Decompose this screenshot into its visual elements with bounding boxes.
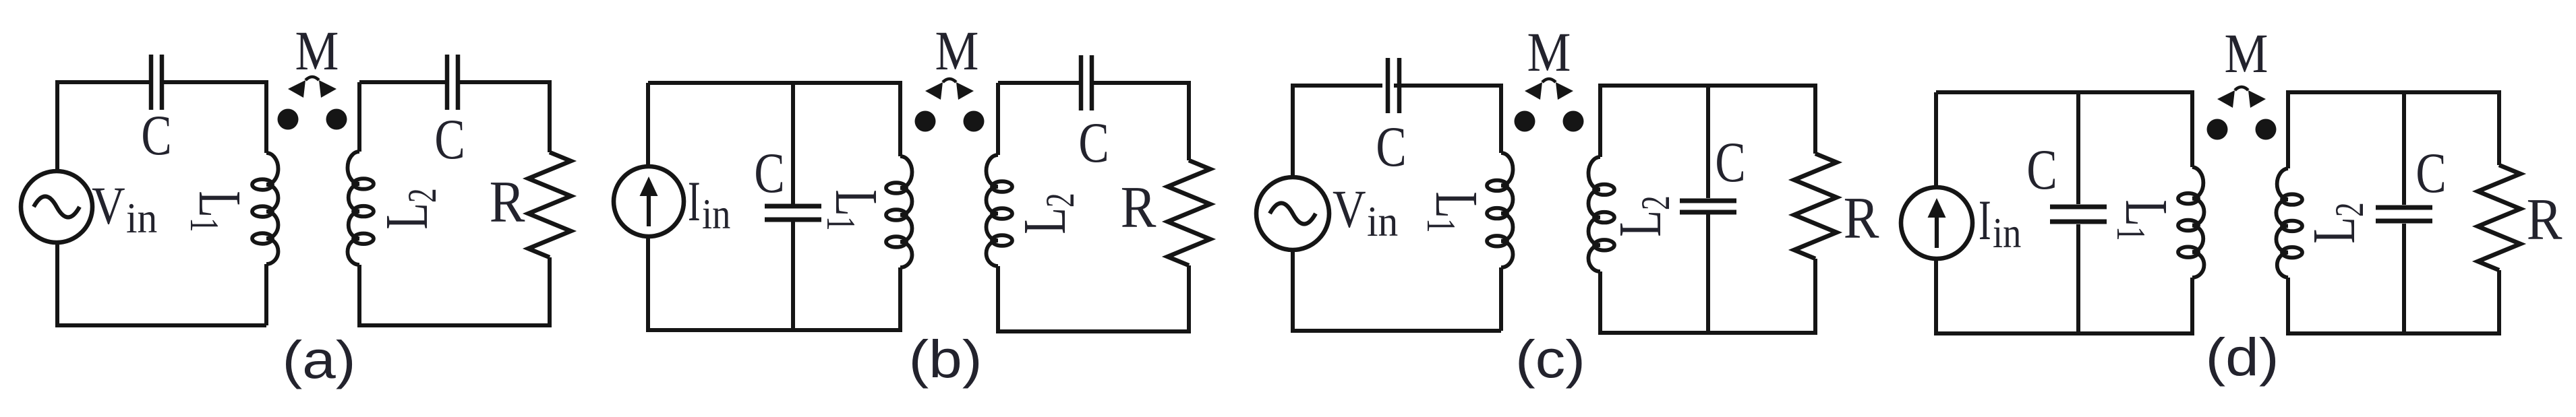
label L1 (d)	[2108, 199, 2180, 240]
svg-text:R: R	[1121, 174, 1157, 240]
label C (c) right	[1715, 130, 1745, 194]
current source Iin (b)	[614, 166, 684, 236]
svg-text:in: in	[1993, 209, 2021, 257]
wire (a) secondary top-left	[359, 80, 447, 84]
label C (c) left	[1376, 115, 1406, 179]
svg-text:in: in	[1367, 198, 1398, 245]
label C (d) right	[2416, 141, 2446, 205]
label Vin (c)	[1333, 181, 1398, 246]
wire (b) C branch top	[791, 83, 795, 204]
label Iin (b)	[688, 169, 730, 238]
(b) coupling arrowhead left	[925, 82, 943, 100]
(b) coupling arrowhead right	[956, 82, 974, 100]
caption (a)	[282, 330, 355, 389]
svg-text:L2: L2	[1606, 195, 1678, 236]
label C (a) left	[141, 103, 171, 167]
caption (c)	[1515, 329, 1585, 389]
svg-text:L1: L1	[2108, 199, 2180, 240]
svg-text:R: R	[2527, 187, 2563, 253]
wire (c) C to L1 top	[1394, 86, 1501, 153]
svg-text:C: C	[1376, 115, 1406, 179]
wire (d) C branch bottom	[2076, 224, 2080, 333]
capacitor C series (a) left	[151, 55, 162, 110]
wire (b) C branch bottom	[791, 222, 795, 330]
(c) coupling arrowhead left	[1525, 82, 1542, 100]
svg-text:L1: L1	[818, 189, 890, 230]
svg-text:L1: L1	[1418, 191, 1490, 232]
label C (d) left	[2026, 137, 2057, 201]
svg-text:V: V	[1333, 181, 1366, 239]
voltage source Vin (c)	[1256, 177, 1329, 250]
wire (b) secondary bottom	[998, 265, 1189, 331]
resistor R (c)	[1794, 154, 1837, 259]
capacitor C parallel (d)	[2050, 207, 2107, 222]
(c) polarity dot left	[1515, 111, 1535, 132]
wire (c) secondary bottom	[1600, 259, 1815, 333]
(c) label M	[1527, 21, 1571, 83]
svg-text:L2: L2	[1011, 193, 1083, 234]
wire (a) L2 bottom to R bottom	[359, 257, 550, 325]
(a) label M	[295, 20, 339, 82]
label L1 (b)	[818, 189, 890, 230]
label L1 (a)	[181, 191, 254, 232]
svg-text:(a): (a)	[282, 330, 355, 389]
wire (b) L2 top lead	[996, 83, 1000, 155]
inductor L1 (a)	[252, 153, 279, 264]
svg-text:C: C	[1715, 130, 1745, 194]
svg-text:I: I	[1979, 188, 1991, 251]
label C (b) right	[1078, 110, 1109, 174]
wire (d) secondary top	[2288, 92, 2499, 168]
(a) coupling arrowhead left	[288, 80, 305, 98]
label C (b)	[754, 141, 784, 205]
label L2 (c)	[1606, 195, 1678, 236]
wire (a) C to L1 top	[164, 82, 266, 153]
resistor R (a)	[529, 152, 571, 257]
label L1 (c)	[1418, 191, 1490, 232]
wire (d) secondary bottom	[2288, 270, 2499, 333]
(b) polarity dot left	[915, 111, 936, 132]
svg-text:I: I	[688, 169, 701, 232]
label R (a)	[490, 169, 525, 235]
label R (d)	[2527, 187, 2563, 253]
wire (d) top run	[1936, 92, 2192, 187]
inductor L1 (b)	[886, 156, 912, 267]
caption (b)	[908, 329, 982, 389]
svg-text:M: M	[2225, 22, 2268, 84]
svg-text:R: R	[490, 169, 525, 235]
wire (a) L1 bottom lead	[264, 264, 268, 325]
(a) polarity dot right	[326, 109, 347, 130]
(c) coupling arrowhead right	[1556, 82, 1573, 100]
svg-text:L1: L1	[181, 191, 254, 232]
wire (c) Vin- to bottom	[1293, 250, 1501, 331]
svg-text:(d): (d)	[2205, 327, 2279, 387]
wire (a) L2 top lead	[357, 82, 361, 152]
wire (b) secondary top-left	[998, 81, 1081, 85]
(b) coupling arc	[943, 79, 956, 82]
(a) coupling arc	[305, 77, 319, 80]
wire (a) secondary top-right	[458, 82, 550, 152]
label Iin (d)	[1979, 188, 2021, 257]
capacitor C series (c)	[1388, 58, 1399, 113]
capacitor C series (a) right	[447, 55, 458, 110]
(a) polarity dot left	[278, 109, 299, 130]
label Vin (a)	[92, 177, 157, 243]
resistor R (d)	[2478, 165, 2521, 270]
capacitor C series (b)	[1081, 55, 1092, 110]
caption (d)	[2205, 327, 2279, 387]
svg-text:(c): (c)	[1515, 329, 1585, 389]
(d) coupling arrowhead left	[2217, 90, 2235, 108]
label R (c)	[1844, 185, 1879, 251]
capacitor C parallel (b)	[765, 206, 821, 220]
svg-text:C: C	[434, 107, 465, 171]
wire (c) top-left run	[1293, 86, 1382, 177]
(c) coupling arc	[1542, 79, 1556, 82]
wire (d) C branch top	[2076, 92, 2080, 204]
svg-text:in: in	[702, 190, 730, 238]
inductor L2 (a)	[347, 152, 374, 265]
svg-text:C: C	[141, 103, 171, 167]
svg-text:M: M	[295, 20, 339, 82]
svg-text:C: C	[754, 141, 784, 205]
wire (a) top-left run Vin+ to C	[57, 82, 149, 171]
label L2 (d)	[2300, 202, 2372, 243]
wire (b) bottom run	[648, 232, 900, 330]
svg-text:C: C	[1078, 110, 1109, 174]
inductor L2 (d)	[2276, 168, 2302, 278]
(d) coupling arc	[2235, 87, 2248, 90]
(b) polarity dot right	[964, 111, 985, 132]
(a) coupling arrowhead right	[319, 80, 336, 98]
wire (c) L1 bottom lead	[1499, 267, 1503, 331]
inductor L1 (d)	[2178, 167, 2204, 278]
capacitor C parallel (d) right	[2376, 207, 2432, 221]
(c) polarity dot right	[1563, 111, 1584, 132]
svg-text:R: R	[1844, 185, 1879, 251]
(b) label M	[935, 20, 979, 82]
capacitor C parallel (c)	[1680, 201, 1736, 212]
voltage source Vin (a)	[21, 171, 92, 243]
label L2 (b)	[1011, 193, 1083, 234]
wire (d) bottom run	[1936, 259, 2192, 333]
svg-text:M: M	[1527, 21, 1571, 83]
svg-text:C: C	[2416, 141, 2446, 205]
svg-text:(b): (b)	[908, 329, 982, 389]
label R (b)	[1121, 174, 1157, 240]
(d) polarity dot left	[2207, 119, 2228, 140]
wire (d) C branch bottom right	[2402, 224, 2406, 333]
current source Iin (d)	[1901, 187, 1972, 259]
inductor L1 (c)	[1487, 153, 1513, 267]
inductor L2 (b)	[987, 155, 1013, 266]
resistor R (b)	[1168, 160, 1210, 265]
svg-text:M: M	[935, 20, 979, 82]
wire (c) C branch bottom	[1706, 214, 1710, 333]
svg-text:L2: L2	[373, 188, 445, 229]
svg-text:V: V	[92, 177, 125, 236]
(d) coupling arrowhead right	[2248, 90, 2266, 108]
(d) polarity dot right	[2256, 119, 2277, 140]
svg-text:C: C	[2026, 137, 2057, 201]
svg-text:L2: L2	[2300, 202, 2372, 243]
(d) label M	[2225, 22, 2268, 84]
wire (d) C branch top right	[2402, 92, 2406, 205]
wire (b) top run	[648, 83, 900, 171]
wire (c) C branch top	[1706, 86, 1710, 198]
wire (b) secondary top-right	[1092, 83, 1189, 160]
inductor L2 (c)	[1589, 157, 1615, 271]
label C (a) right	[434, 107, 465, 171]
svg-text:in: in	[126, 195, 157, 242]
wire (c) secondary top	[1600, 86, 1815, 157]
label L2 (a)	[373, 188, 445, 229]
wire (a) Vin- to bottom	[57, 243, 266, 325]
